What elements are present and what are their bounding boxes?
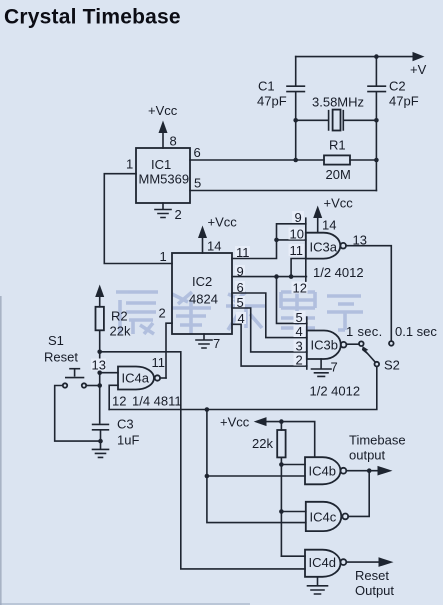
svg-text:+Vcc: +Vcc: [208, 215, 238, 230]
pin 13 label IC4a: [91, 358, 106, 373]
wire IC4c output up to tie: [348, 471, 369, 517]
svg-text:IC4d: IC4d: [309, 555, 336, 570]
svg-text:3.58MHz: 3.58MHz: [312, 95, 364, 110]
node: 22k bottom / IC4b top input: [279, 462, 284, 467]
ground IC3b pin 7: [312, 359, 338, 376]
pin 12 label IC4a: [112, 394, 126, 409]
op IC3b: pin labels 5,4,3,2: [294, 310, 306, 368]
node: C1/R1 junction: [293, 158, 298, 163]
pin 5 label IC1: [194, 176, 201, 191]
svg-text:R1: R1: [329, 138, 346, 153]
wire IC3b output to 1sec contact: [346, 343, 359, 345]
svg-text:IC4a: IC4a: [122, 371, 150, 386]
svg-text:+Vcc: +Vcc: [324, 196, 354, 211]
svg-text:7: 7: [331, 360, 338, 375]
switch S1 pushbutton: [55, 369, 100, 441]
svg-text:2: 2: [175, 207, 182, 222]
svg-text:1: 1: [160, 249, 167, 264]
0.1 sec label: [395, 324, 437, 339]
pin 6 label IC1: [194, 145, 201, 160]
label 1/2 4012 for IC3b: [310, 384, 361, 399]
svg-text:+V: +V: [410, 62, 427, 77]
node: R2 / reset net junction: [97, 350, 102, 355]
svg-text:Crystal Timebase: Crystal Timebase: [4, 6, 181, 29]
node: C2/crystal junction: [374, 118, 379, 123]
pin 1 label IC2: [160, 249, 167, 264]
scan edge artifact left: [0, 296, 2, 605]
svg-text:12: 12: [112, 394, 126, 409]
R1 label: [326, 138, 351, 183]
+V rail wire: [296, 56, 413, 58]
wire IC4a pin12 to bus: [109, 385, 118, 409]
svg-text:IC2: IC2: [192, 274, 212, 289]
C1 label: [257, 79, 287, 109]
resistor 22k: [277, 422, 285, 465]
svg-text:8: 8: [170, 134, 177, 149]
C2 label: [389, 79, 419, 109]
wire C1 top lead: [295, 57, 297, 85]
+V label: [410, 62, 427, 77]
wire IC4b output: [346, 470, 378, 472]
Reset Output label: [355, 568, 394, 598]
svg-text:1 sec.: 1 sec.: [346, 324, 382, 339]
svg-text:2: 2: [159, 306, 166, 321]
wire S2 pole down to bus: [109, 366, 377, 409]
capacitor C3: [93, 424, 109, 441]
scan edge artifact bottom: [0, 603, 250, 605]
svg-text:+Vcc: +Vcc: [148, 103, 178, 118]
svg-text:3: 3: [296, 339, 303, 354]
label 1/4 4811: [132, 394, 182, 409]
svg-text:1: 1: [126, 157, 133, 172]
svg-text:IC4b: IC4b: [309, 464, 336, 479]
node: R1/C2 junction: [374, 158, 379, 163]
svg-text:5: 5: [296, 310, 303, 325]
wire to IC4d top input: [281, 555, 305, 557]
svg-text:MM5369: MM5369: [139, 172, 190, 187]
gate IC4b: [305, 457, 346, 484]
resistor R2: [95, 285, 104, 424]
svg-text:C1: C1: [258, 79, 275, 94]
gate IC4c: [306, 502, 348, 531]
svg-text:Reset: Reset: [355, 568, 389, 583]
svg-text:11: 11: [152, 355, 166, 370]
node: C3 / S1 ground junction: [98, 439, 103, 444]
IC1 box MM5369: [136, 148, 190, 203]
switch S2 contact 0.1 sec: [389, 341, 394, 346]
node: rail / C2 junction: [374, 54, 379, 59]
node: branch to IC4c top input: [279, 509, 284, 514]
ground IC2 pin 7: [196, 334, 220, 351]
capacitor C1: [287, 86, 304, 159]
svg-text:9: 9: [295, 210, 302, 225]
node: pin9 bus / IC3a pin11 branch: [289, 274, 294, 279]
+V arrow: [413, 52, 425, 61]
gate IC4a 1/4 4811: [118, 367, 166, 390]
wire IC2 pin6 to IC3b pin4: [232, 293, 307, 338]
pin 13 label IC3a: [353, 233, 367, 248]
node: branch to IC4b lower input: [205, 474, 210, 479]
node: +Vcc / 22k top junction: [279, 419, 284, 424]
wire IC2 pin11 to IC3a pins 9,10: [232, 224, 306, 259]
pin 8 label: [170, 134, 177, 149]
svg-text:output: output: [349, 448, 386, 463]
svg-text:4: 4: [296, 324, 303, 339]
switch S2 contact 1 sec: [359, 341, 364, 346]
pin 14 label IC3a: [322, 218, 336, 233]
svg-text:Reset: Reset: [44, 350, 78, 365]
svg-text:IC3a: IC3a: [310, 240, 338, 255]
1 sec. label: [346, 324, 382, 339]
pin 11 label IC4a: [152, 355, 166, 370]
svg-text:12: 12: [293, 281, 307, 296]
node: IC3a pin10 tie: [274, 238, 279, 243]
svg-text:2: 2: [296, 353, 303, 368]
wire IC2 pin5 to IC3b pin3: [232, 308, 307, 352]
wire branch down to IC4b/IC4c lower inputs: [207, 410, 306, 523]
svg-text:22k: 22k: [252, 436, 273, 451]
wire to IC4c top input: [281, 511, 305, 513]
svg-text:1/4 4811: 1/4 4811: [132, 394, 182, 409]
+Vcc arrow IC2 pin 14: [198, 215, 237, 254]
svg-text:22k: 22k: [110, 324, 131, 339]
wire IC4a pin13: [100, 372, 118, 374]
pin 14 label IC2: [207, 239, 221, 254]
crystal X1 3.58MHz: [296, 95, 377, 131]
S2 label: [384, 358, 400, 373]
svg-text:4824: 4824: [189, 292, 218, 307]
arrow timebase output: [378, 466, 393, 476]
gate IC3b 1/2 4012: [307, 317, 347, 369]
svg-text:IC3b: IC3b: [311, 338, 338, 353]
wire IC3a output to 0.1sec contact: [346, 246, 391, 341]
22k label: [252, 436, 273, 451]
node: pin9 bus / IC3b branch: [274, 274, 279, 279]
pin 4 label IC2: [236, 311, 246, 326]
svg-text:10: 10: [290, 227, 304, 242]
wire C2 top lead: [375, 57, 377, 85]
node: R2 / S1 junction: [97, 383, 102, 388]
+Vcc arrow IC1 pin 8: [148, 103, 178, 148]
wire IC4d output: [346, 561, 379, 563]
svg-text:IC4c: IC4c: [310, 510, 337, 525]
pin 5 label IC2: [235, 295, 245, 310]
svg-text:C3: C3: [117, 417, 134, 432]
node: bus / IC4 lower-input branch: [205, 407, 210, 412]
wire to IC4b lower input: [207, 475, 305, 477]
svg-text:5: 5: [194, 176, 201, 191]
ground IC1 pin 2: [155, 203, 182, 222]
gate IC3a 1/2 4012: [306, 218, 346, 281]
label 1/2 4012 for IC3a: [313, 265, 364, 280]
svg-text:1uF: 1uF: [117, 433, 139, 448]
+Vcc arrow IC3a pin 14: [313, 196, 353, 233]
svg-text:Timebase: Timebase: [349, 433, 406, 448]
svg-text:S1: S1: [48, 333, 64, 348]
Timebase output label: [349, 433, 406, 463]
wire IC2 pin4 to IC3b pin2: [232, 324, 307, 366]
arrow reset output: [379, 557, 394, 567]
node: IC4b/IC4c output tie: [367, 468, 372, 473]
R2 label: [110, 309, 131, 339]
pin 1 label IC1: [126, 157, 133, 172]
svg-text:7: 7: [213, 336, 220, 351]
switch S2 arm with arrowhead: [362, 346, 375, 362]
svg-text:C2: C2: [389, 79, 406, 94]
+Vcc arrow feed for 22k: [220, 415, 315, 458]
svg-text:1/2 4012: 1/2 4012: [310, 384, 361, 399]
svg-text:S2: S2: [384, 358, 400, 373]
wire IC2 pin9 bus to IC3a pin12: [232, 276, 306, 278]
pin 6 label IC2: [235, 280, 245, 295]
switch S2 pole: [375, 362, 380, 367]
wire branch down to IC3b pin5: [277, 277, 307, 324]
svg-text:14: 14: [207, 239, 221, 254]
svg-text:11: 11: [290, 243, 304, 258]
resistor R1: [324, 155, 376, 164]
svg-text:20M: 20M: [326, 167, 351, 182]
svg-text:47pF: 47pF: [389, 94, 419, 109]
svg-text:1/2 4012: 1/2 4012: [313, 265, 364, 280]
C3 label: [117, 417, 139, 448]
capacitor C2: [368, 86, 385, 190]
ground below C3: [93, 441, 109, 457]
svg-text:0.1 sec: 0.1 sec: [395, 324, 437, 339]
pin 9 label IC2: [235, 264, 245, 279]
gate IC4d: [305, 550, 346, 577]
node: R2 / IC4a pin13 junction: [97, 370, 102, 375]
S1 label: [44, 333, 78, 365]
pin 2 label IC2: [159, 306, 166, 321]
svg-text:Output: Output: [355, 583, 394, 598]
op IC3a: pin labels 9,10,11,12: [289, 210, 308, 296]
ground IC4d: [308, 577, 328, 594]
svg-text:47pF: 47pF: [257, 94, 287, 109]
wire IC1 pin5 to oscillator node: [190, 190, 376, 192]
wire IC1 pin6 to R1: [190, 159, 324, 161]
pin 11 label IC2: [235, 245, 250, 260]
wire branch to IC3a pin11: [291, 259, 306, 277]
wire IC2 pin2 to IC4a output: [166, 323, 172, 378]
svg-text:+Vcc: +Vcc: [220, 415, 250, 430]
IC2 box 4824: [172, 253, 232, 334]
svg-text:6: 6: [194, 145, 201, 160]
svg-text:14: 14: [322, 218, 336, 233]
wire reset net to IC4d input: [100, 352, 305, 569]
wire IC1 pin1 to IC2 pin1: [104, 174, 172, 264]
svg-text:13: 13: [92, 358, 106, 373]
svg-text:R2: R2: [111, 309, 128, 324]
node: C1/crystal junction: [293, 118, 298, 123]
wire to IC4b top input: [281, 464, 305, 466]
svg-text:IC1: IC1: [151, 157, 171, 172]
watermark 康华尔电子 (drawn strokes, no CJK font): [116, 292, 363, 334]
wire 22k node down to IC4c top input: [280, 465, 282, 557]
